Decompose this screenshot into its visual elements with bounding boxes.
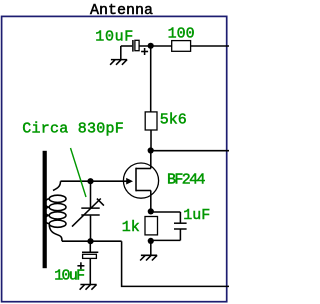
svg-text:1k: 1k	[122, 219, 140, 236]
svg-text:Antenna: Antenna	[90, 2, 153, 19]
svg-text:10uF: 10uF	[95, 28, 133, 45]
svg-text:100: 100	[168, 26, 195, 43]
svg-text:5k6: 5k6	[160, 112, 187, 129]
svg-text:BF244: BF244	[167, 171, 206, 188]
svg-text:1uF: 1uF	[183, 207, 210, 224]
svg-text:10uF: 10uF	[54, 267, 85, 284]
svg-text:Circa 830pF: Circa 830pF	[22, 120, 124, 137]
